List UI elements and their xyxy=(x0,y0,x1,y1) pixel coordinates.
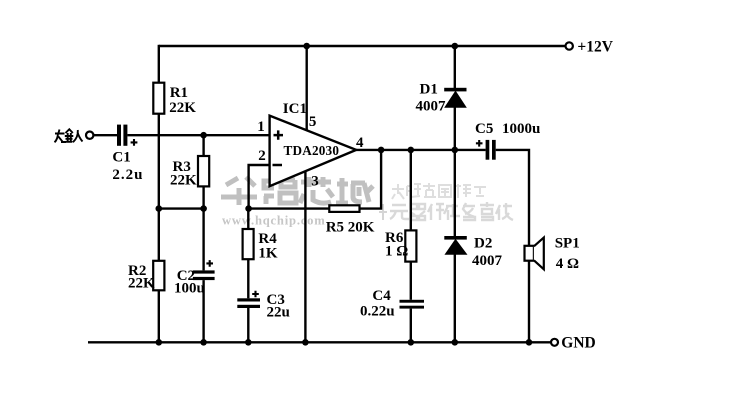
C3 polarity plus xyxy=(252,291,259,298)
watermark separator 丨 xyxy=(379,204,387,220)
node jumper left xyxy=(156,205,163,212)
wire R2 line xyxy=(158,135,160,261)
node R5/pin2/R4 xyxy=(245,205,252,212)
wire C1 to pin1 xyxy=(127,134,269,136)
speaker SP1 horn xyxy=(534,238,544,270)
capacitor C5 plate right xyxy=(492,140,496,160)
svg-text:R4: R4 xyxy=(258,231,277,247)
label D1 4007 xyxy=(416,82,447,115)
svg-text:C5: C5 xyxy=(475,121,493,137)
wire speaker to rail xyxy=(528,261,530,343)
wire R4 to C3 xyxy=(247,259,249,298)
svg-text:22K: 22K xyxy=(128,276,155,292)
label SP1 4ohm xyxy=(555,235,580,272)
C5 polarity plus xyxy=(476,140,483,147)
label D2 4007 xyxy=(472,236,503,269)
diode D2 cathode bar xyxy=(444,236,467,240)
label R4 1K xyxy=(258,231,278,262)
label R3 22K xyxy=(170,159,197,189)
wire D1 bottom to output xyxy=(454,107,456,150)
label R1 22K xyxy=(169,85,196,116)
label C1 2.2u xyxy=(112,150,143,184)
svg-text:100u: 100u xyxy=(174,281,205,297)
+12V terminal circle xyxy=(566,42,573,49)
resistor R4 xyxy=(243,229,254,259)
GND terminal circle xyxy=(551,339,558,346)
node rail D2 xyxy=(452,339,459,346)
wire R3 to C2 xyxy=(202,186,204,270)
resistor R5 xyxy=(329,205,359,212)
svg-text:1K: 1K xyxy=(258,246,278,262)
label R2 22K xyxy=(128,263,155,292)
wire C3 to rail xyxy=(247,308,249,342)
speaker SP1 box xyxy=(525,246,534,261)
resistor R1 xyxy=(153,83,164,114)
node output-R5 xyxy=(378,147,385,154)
wire D2 top from output xyxy=(454,150,456,236)
diode D1 cathode bar xyxy=(444,88,466,92)
capacitor C3 plate bottom xyxy=(237,305,260,308)
wire output pin4 xyxy=(356,149,485,151)
node rail C3 xyxy=(245,339,252,346)
svg-text:1 Ω: 1 Ω xyxy=(385,244,408,260)
svg-text:R1: R1 xyxy=(170,85,188,101)
svg-text:TDA2030: TDA2030 xyxy=(284,143,340,158)
svg-text:www.hqchip.com: www.hqchip.com xyxy=(222,213,326,227)
svg-text:22u: 22u xyxy=(267,305,290,321)
wire R1 top from rail xyxy=(158,45,160,83)
svg-text:SP1: SP1 xyxy=(555,235,580,251)
label C2 100u xyxy=(174,268,205,297)
node pin5 on rail xyxy=(303,43,310,50)
capacitor C3 plate top xyxy=(237,298,260,301)
diode D2 triangle xyxy=(445,240,466,255)
op-amp IC1 TDA2030 xyxy=(270,116,357,187)
wire pin5 from top rail xyxy=(306,46,308,131)
svg-text:22K: 22K xyxy=(170,173,197,189)
node rail C4 xyxy=(408,339,415,346)
C2 polarity plus xyxy=(206,260,213,267)
wire R5 left leg xyxy=(249,207,330,209)
wire bottom rail GND xyxy=(88,341,551,343)
op-amp plus input mark xyxy=(274,130,284,139)
capacitor C1 plate left xyxy=(117,125,121,146)
wire jumper R2-R3 xyxy=(159,207,204,209)
node rail pin3 xyxy=(302,339,309,346)
node rail R2 xyxy=(156,339,163,346)
label R6 1ohm xyxy=(385,230,408,260)
wire C5 to speaker corner xyxy=(496,150,529,246)
wire R2 bottom to rail xyxy=(158,290,160,342)
wire R6 top xyxy=(410,150,412,231)
svg-text:D2: D2 xyxy=(474,236,492,252)
svg-text:+12V: +12V xyxy=(577,39,613,56)
node input/R3 xyxy=(200,132,207,139)
wire R6 to C4 xyxy=(410,262,412,300)
op-amp minus input mark xyxy=(273,164,283,167)
label C4 0.22u xyxy=(360,288,395,320)
watermark 华强集团旗下 (light gray, right) xyxy=(392,183,486,199)
svg-text:2.2u: 2.2u xyxy=(112,167,143,183)
node output-D xyxy=(452,147,459,154)
wire D2 bottom to rail xyxy=(454,254,456,342)
svg-text:5: 5 xyxy=(309,114,317,130)
svg-text:1000u: 1000u xyxy=(502,121,540,137)
wire C4 to rail xyxy=(410,309,412,343)
svg-text:4007: 4007 xyxy=(416,99,447,115)
wire pin3 down xyxy=(304,171,306,342)
capacitor C1 plate right xyxy=(123,125,127,146)
svg-text:4 Ω: 4 Ω xyxy=(556,256,579,272)
wire top rail +12V xyxy=(159,45,566,47)
watermark 元器件在线商城 (light gray, right, second line) xyxy=(390,202,513,220)
wire R5 right leg xyxy=(360,150,382,209)
C1 polarity plus xyxy=(131,139,138,146)
svg-text:R5 20K: R5 20K xyxy=(326,220,375,236)
svg-text:C1: C1 xyxy=(112,150,130,166)
svg-text:GND: GND xyxy=(561,334,595,351)
wire R3 top from node xyxy=(202,135,204,156)
capacitor C5 plate left xyxy=(486,140,490,160)
svg-text:2: 2 xyxy=(258,148,266,164)
capacitor C4 plate bottom xyxy=(400,306,425,309)
svg-text:0.22u: 0.22u xyxy=(360,304,395,320)
node jumper right xyxy=(200,205,207,212)
node output-R6 xyxy=(408,147,415,154)
wire input terminal to C1 xyxy=(93,134,117,136)
diode D1 triangle xyxy=(445,91,466,107)
input terminal circle xyxy=(86,132,93,139)
resistor R3 xyxy=(198,156,209,186)
node D1 on rail xyxy=(452,43,459,50)
resistor R2 xyxy=(153,261,164,291)
label C5 1000u xyxy=(475,121,540,137)
capacitor C2 plate bottom xyxy=(193,277,215,280)
wire pin2 stub xyxy=(249,165,270,209)
svg-text:3: 3 xyxy=(311,173,319,189)
svg-text:4007: 4007 xyxy=(472,253,503,269)
svg-text:1: 1 xyxy=(257,119,265,135)
capacitor C2 plate top xyxy=(193,270,215,273)
node rail C2 xyxy=(200,339,207,346)
svg-text:C4: C4 xyxy=(372,288,391,304)
label C3 22u xyxy=(267,292,290,321)
wire D1 top from rail xyxy=(454,46,456,88)
svg-text:IC1: IC1 xyxy=(283,101,307,117)
watermark 华强芯城 (large gray logo text, center-left) xyxy=(221,177,373,205)
capacitor C4 plate top xyxy=(400,300,425,303)
node rail SP1 xyxy=(526,339,533,346)
wire R1 bottom to input line xyxy=(158,114,160,136)
svg-text:D1: D1 xyxy=(420,82,438,98)
wire C2 to rail xyxy=(202,280,204,342)
resistor R6 xyxy=(405,230,416,261)
label 输入 (input) xyxy=(55,129,83,142)
wire R4 top xyxy=(247,209,249,229)
svg-text:22K: 22K xyxy=(169,100,196,116)
